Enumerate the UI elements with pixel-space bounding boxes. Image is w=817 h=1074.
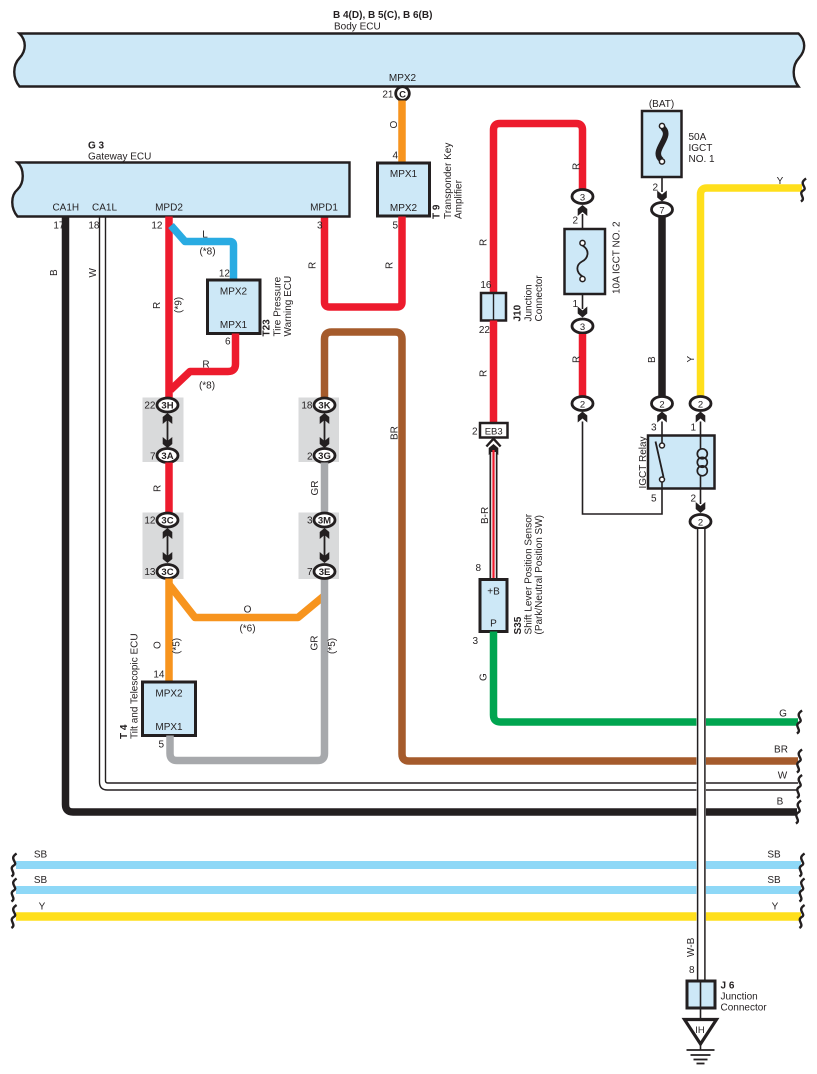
node 2 oval below relay <box>690 489 711 529</box>
svg-text:MPD2: MPD2 <box>155 203 183 214</box>
svg-text:IGCT: IGCT <box>689 143 713 154</box>
pin labels on Gateway ECU <box>52 203 338 232</box>
svg-text:3K: 3K <box>318 401 330 412</box>
svg-text:B: B <box>777 797 784 808</box>
svg-text:3: 3 <box>580 322 585 333</box>
svg-text:3G: 3G <box>318 451 331 462</box>
svg-text:6: 6 <box>225 337 231 348</box>
svg-text:MPX2: MPX2 <box>389 73 417 84</box>
svg-text:R: R <box>385 262 396 269</box>
svg-text:2: 2 <box>580 399 585 410</box>
wire R red between 3A and 3C <box>153 463 170 514</box>
svg-text:CA1L: CA1L <box>92 203 117 214</box>
wire B-R to S35 with arrows <box>475 439 500 580</box>
wire L blue from MPD2 to T23 pin 12 <box>171 226 234 281</box>
svg-text:T 9: T 9 <box>432 204 443 219</box>
svg-text:SB: SB <box>34 850 48 861</box>
svg-text:R: R <box>479 239 490 246</box>
wire R red from Gateway MPD2 12 down to 3H <box>152 217 185 399</box>
svg-text:IGCT Relay: IGCT Relay <box>638 436 649 488</box>
svg-text:G 3: G 3 <box>88 141 105 152</box>
connector block 3K/3G <box>299 398 340 463</box>
svg-text:13: 13 <box>144 567 156 578</box>
svg-text:Amplifier: Amplifier <box>454 179 465 219</box>
wire SB upper <box>16 850 801 866</box>
svg-text:R: R <box>153 485 164 492</box>
svg-text:(*5): (*5) <box>327 638 338 654</box>
svg-text:NO. 1: NO. 1 <box>689 154 716 165</box>
op T9 Transponder Key Amplifier box <box>378 143 465 219</box>
svg-text:Connector: Connector <box>534 275 545 322</box>
wire W-B white-black from relay node 2 to J6 <box>686 528 705 981</box>
svg-text:MPX2: MPX2 <box>220 287 248 298</box>
svg-text:Y: Y <box>772 902 779 913</box>
svg-text:+B: +B <box>487 587 500 598</box>
svg-text:W: W <box>88 268 99 278</box>
wire G green from S35 P to right edge <box>479 632 799 723</box>
svg-text:2: 2 <box>472 427 478 438</box>
svg-text:BR: BR <box>390 426 401 440</box>
svg-text:14: 14 <box>153 670 165 681</box>
svg-text:12: 12 <box>144 516 156 527</box>
svg-text:22: 22 <box>479 325 491 336</box>
svg-text:Tire Pressure: Tire Pressure <box>273 276 284 336</box>
svg-text:7: 7 <box>150 452 156 463</box>
ground IH <box>685 1008 717 1064</box>
svg-text:3: 3 <box>317 221 323 232</box>
svg-text:2: 2 <box>698 517 703 528</box>
wire O orange branch to 3E gray wire <box>170 585 325 635</box>
svg-text:(*8): (*8) <box>199 381 215 392</box>
svg-text:Warning ECU: Warning ECU <box>283 276 294 337</box>
ecu T23 Tire Pressure Warning ECU box <box>208 276 295 337</box>
junction connector J10 <box>479 275 545 336</box>
svg-text:EB3: EB3 <box>485 427 503 438</box>
svg-text:3H: 3H <box>161 401 173 412</box>
svg-text:7: 7 <box>659 205 664 216</box>
svg-text:5: 5 <box>651 494 657 505</box>
node 7 oval below 50A fuse <box>652 177 673 217</box>
wire B black from CA1H 17 to right edge <box>49 217 797 813</box>
svg-text:R: R <box>152 302 163 309</box>
svg-text:L: L <box>202 230 208 241</box>
svg-text:(*9): (*9) <box>174 297 185 313</box>
svg-text:Shift Lever Position Sensor: Shift Lever Position Sensor <box>524 513 535 634</box>
svg-text:SB: SB <box>767 850 781 861</box>
svg-text:3C: 3C <box>161 516 173 527</box>
connector block 3H/3A <box>143 398 184 463</box>
junction connector J6 <box>687 981 767 1014</box>
connector block 3M/3E <box>299 513 340 580</box>
svg-text:1: 1 <box>572 299 578 310</box>
svg-text:3: 3 <box>472 636 478 647</box>
wire SB lower <box>16 875 801 890</box>
svg-text:2: 2 <box>307 452 313 463</box>
wire B black from node 7 to node 2 <box>647 217 662 397</box>
svg-text:8: 8 <box>689 965 695 976</box>
svg-text:SB: SB <box>767 875 781 886</box>
svg-text:Y: Y <box>686 356 697 363</box>
svg-text:GR: GR <box>310 636 321 651</box>
node EB3 <box>472 423 508 438</box>
svg-text:2: 2 <box>659 399 664 410</box>
svg-text:Gateway ECU: Gateway ECU <box>88 152 151 163</box>
svg-text:Y: Y <box>777 176 784 187</box>
fuse 50A IGCT NO. 1 <box>642 111 715 177</box>
svg-text:21: 21 <box>382 90 394 101</box>
relay IGCT Relay <box>638 436 715 505</box>
svg-text:B: B <box>647 356 658 363</box>
wire R red loop Gateway MPD1 to T9 pin 5 <box>308 217 403 308</box>
svg-text:R: R <box>572 163 583 170</box>
svg-text:3A: 3A <box>161 451 173 462</box>
svg-text:MPX2: MPX2 <box>390 203 418 214</box>
svg-text:7: 7 <box>307 567 313 578</box>
svg-text:4: 4 <box>392 151 398 162</box>
wire R red loop from J10 leg to 10A fuse leg <box>479 124 583 294</box>
svg-text:18: 18 <box>301 401 313 412</box>
wire Y bottom <box>16 902 801 917</box>
svg-text:B: B <box>49 269 60 276</box>
svg-text:2: 2 <box>572 216 578 227</box>
node 2 oval black leg <box>651 397 673 436</box>
wire GR gray between 3G and 3M <box>310 463 325 514</box>
pin 21 circled C connector <box>382 87 409 101</box>
svg-text:3: 3 <box>580 192 585 203</box>
wire GR gray from 3E down around to T4 MPX1 pin 5 <box>170 579 325 761</box>
wire link node2 to relay pin 5 <box>583 422 663 515</box>
svg-text:BR: BR <box>774 745 788 756</box>
ecu T4 Tilt and Telescopic ECU box <box>119 633 196 750</box>
svg-text:3: 3 <box>651 423 657 434</box>
fuse 10A IGCT NO. 2 <box>565 221 623 294</box>
svg-text:22: 22 <box>144 401 156 412</box>
header label Body ECU <box>333 10 432 33</box>
wire Y yellow from right edge to node 2 <box>686 176 802 397</box>
svg-text:Junction: Junction <box>524 284 535 321</box>
svg-text:(*8): (*8) <box>199 247 215 258</box>
svg-text:MPX1: MPX1 <box>155 722 183 733</box>
wire GR labels on 3E leg <box>310 636 339 655</box>
svg-text:(BAT): (BAT) <box>649 99 674 110</box>
svg-text:T23: T23 <box>262 319 273 337</box>
svg-text:12: 12 <box>219 269 231 280</box>
svg-text:3C: 3C <box>161 567 173 578</box>
node 2 oval red leg <box>572 397 593 423</box>
svg-text:P: P <box>490 619 497 630</box>
svg-text:B 4(D), B 5(C), B 6(B): B 4(D), B 5(C), B 6(B) <box>333 10 432 21</box>
svg-text:50A: 50A <box>689 132 707 143</box>
svg-text:G: G <box>779 709 787 720</box>
svg-text:1: 1 <box>690 423 696 434</box>
svg-text:O: O <box>389 121 400 129</box>
node 3 oval above 10A fuse <box>572 190 593 244</box>
wire BR brown from 3K loop to right edge <box>325 332 799 761</box>
node 3 oval below 10A fuse <box>572 294 593 333</box>
svg-text:R: R <box>308 262 319 269</box>
svg-text:MPX2: MPX2 <box>155 689 183 700</box>
Gateway ECU bus bar <box>12 163 349 217</box>
wire R red from T23 pin 6 joining MPD2 red <box>171 334 236 392</box>
svg-text:3E: 3E <box>319 567 331 578</box>
Body ECU bus bar <box>14 34 804 87</box>
svg-text:(*5): (*5) <box>172 638 183 654</box>
svg-text:W-B: W-B <box>686 937 697 957</box>
svg-text:IH: IH <box>695 1025 705 1036</box>
svg-text:5: 5 <box>392 221 398 232</box>
svg-text:(Park/Neutral Position SW): (Park/Neutral Position SW) <box>534 515 545 634</box>
svg-text:3: 3 <box>307 516 313 527</box>
svg-text:S35: S35 <box>513 616 524 634</box>
wire O orange from Body ECU 21 to T9 pin 4 <box>398 101 406 164</box>
svg-text:Body ECU: Body ECU <box>334 22 381 33</box>
wire break squiggles left edge <box>11 854 16 929</box>
svg-text:12: 12 <box>151 221 163 232</box>
wire R red from J10 to EB3 <box>479 321 494 424</box>
svg-text:10A IGCT NO. 2: 10A IGCT NO. 2 <box>612 221 623 294</box>
node 2 oval yellow leg <box>690 397 711 436</box>
svg-text:O: O <box>244 605 252 616</box>
header label Gateway ECU <box>88 141 151 163</box>
svg-text:Connector: Connector <box>721 1003 768 1014</box>
svg-text:B-R: B-R <box>480 507 491 524</box>
svg-text:W: W <box>778 771 788 782</box>
wire R red from 10A fuse to node 2 <box>572 334 583 397</box>
svg-text:MPX1: MPX1 <box>390 169 418 180</box>
svg-text:3M: 3M <box>318 516 331 527</box>
sensor S35 Shift Lever Position Sensor <box>472 513 545 647</box>
svg-text:Y: Y <box>39 902 46 913</box>
svg-text:Transponder Key: Transponder Key <box>443 143 454 219</box>
svg-text:J10: J10 <box>513 304 524 321</box>
svg-text:16: 16 <box>480 280 492 291</box>
wire W white double-line from CA1L 18 to right edge <box>88 217 798 791</box>
svg-text:2: 2 <box>690 494 696 505</box>
svg-text:R: R <box>572 356 583 363</box>
svg-text:CA1H: CA1H <box>52 203 79 214</box>
svg-text:J 6: J 6 <box>721 981 735 992</box>
wire O orange from 3C to T4 MPX2 pin 14 <box>153 579 183 683</box>
svg-text:5: 5 <box>158 740 164 751</box>
svg-text:O: O <box>153 641 164 649</box>
svg-text:C: C <box>399 89 406 100</box>
svg-text:SB: SB <box>34 875 48 886</box>
svg-text:GR: GR <box>310 481 321 496</box>
wire break squiggles right edge <box>796 179 806 929</box>
svg-text:8: 8 <box>475 563 481 574</box>
svg-text:18: 18 <box>88 221 100 232</box>
svg-text:R: R <box>479 370 490 377</box>
svg-text:2: 2 <box>698 399 703 410</box>
svg-text:Junction: Junction <box>721 992 758 1003</box>
svg-text:MPX1: MPX1 <box>220 320 248 331</box>
svg-text:G: G <box>479 673 490 681</box>
svg-text:T 4: T 4 <box>119 724 130 739</box>
svg-text:Tilt and Telescopic ECU: Tilt and Telescopic ECU <box>130 633 141 739</box>
svg-text:R: R <box>202 360 209 371</box>
svg-text:(*6): (*6) <box>239 624 255 635</box>
connector block 3C/3C <box>143 513 184 580</box>
svg-text:MPD1: MPD1 <box>310 203 338 214</box>
